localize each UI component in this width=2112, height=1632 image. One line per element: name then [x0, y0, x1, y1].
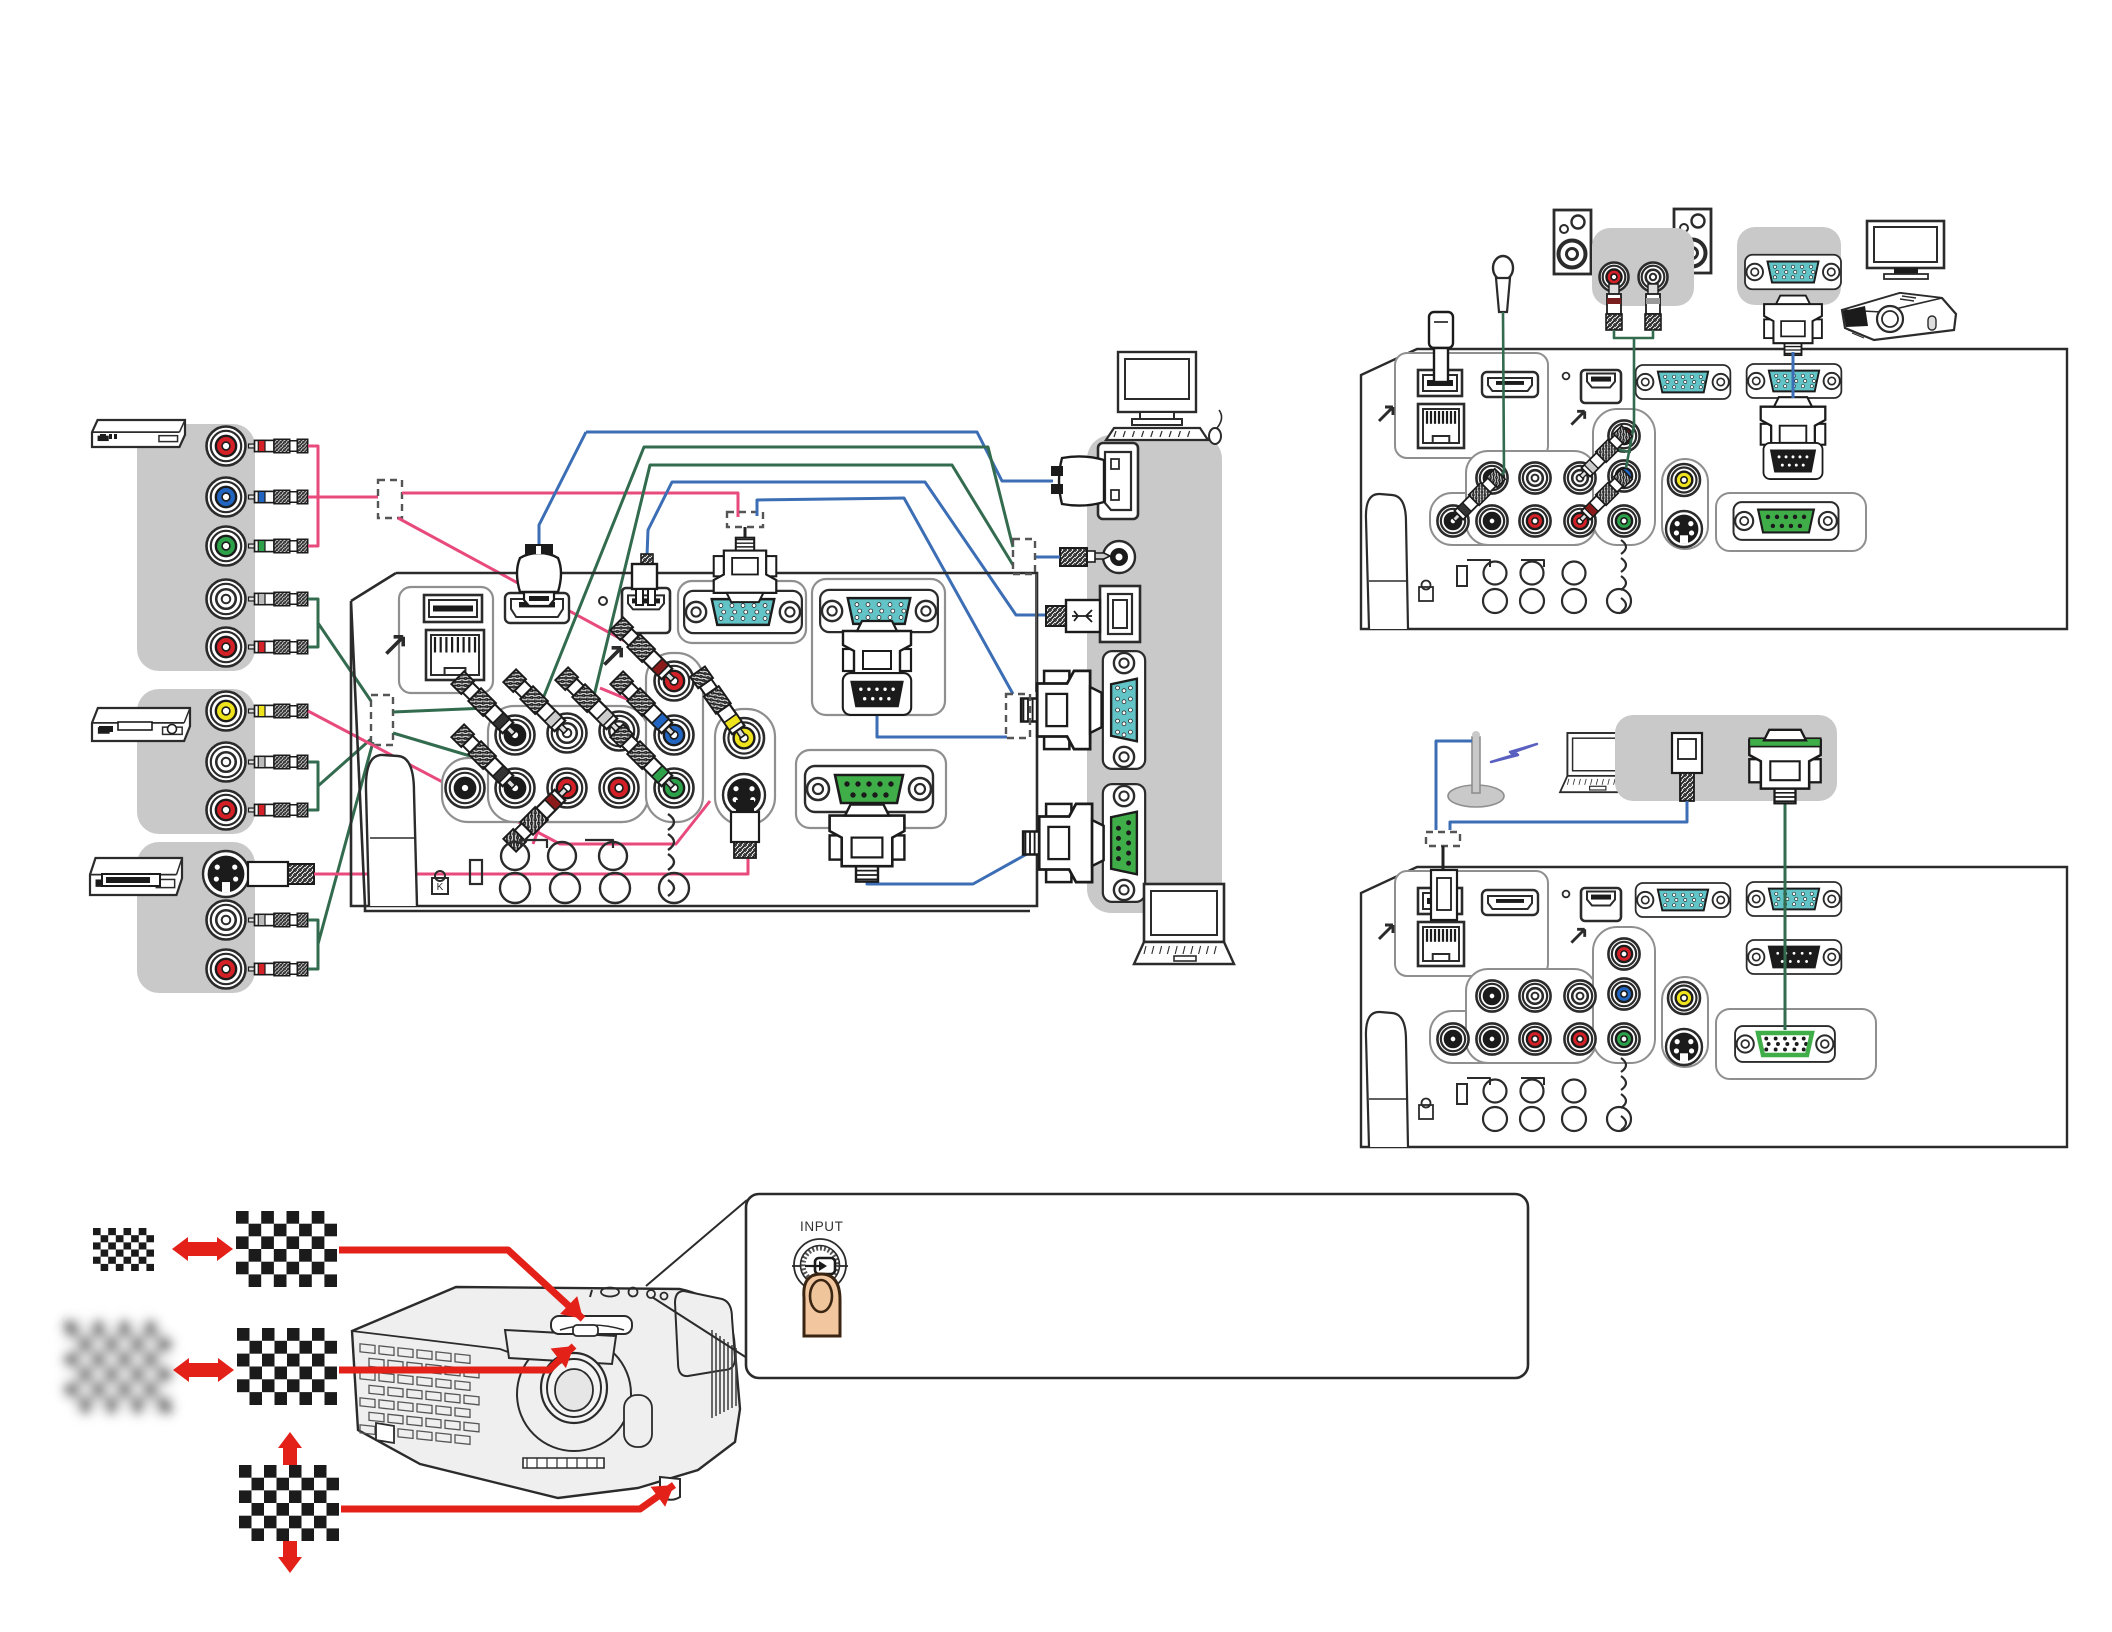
VGA in1 [1636, 883, 1731, 917]
grille brick pattern [360, 1344, 375, 1354]
cluster jacks [496, 716, 535, 755]
audio plug [1094, 553, 1110, 559]
top front edge [352, 1331, 508, 1352]
red line to foot [341, 1485, 674, 1509]
panel outline [1361, 349, 2067, 629]
USB-A port [1418, 370, 1462, 396]
computer-in green VGA port (mid) [1716, 1009, 1876, 1079]
USB cable plug [1066, 600, 1100, 632]
laptop (wireless) [1560, 733, 1634, 792]
control cable head [830, 805, 905, 882]
coupler1 [378, 480, 402, 518]
mic cable [1483, 312, 1504, 498]
video deck icon [90, 858, 182, 895]
coupler5 [1006, 694, 1030, 738]
CONTROL green d-sub (top-right) [1716, 493, 1866, 551]
VGA head into strip [1021, 671, 1102, 749]
speaker plugs [1609, 284, 1619, 296]
gray box: component video source [137, 424, 255, 671]
microphone [1493, 256, 1513, 280]
VIDEO yellow jack [724, 718, 764, 758]
red line to focus ring [339, 1346, 574, 1370]
VCR icon [92, 708, 190, 741]
LAN plug into panel [1431, 870, 1457, 920]
INPUT button [794, 1239, 846, 1291]
mini USB plug [641, 554, 653, 566]
blue cables mid [1436, 741, 1472, 830]
IR window [624, 1395, 652, 1447]
checkerboard large [236, 1211, 337, 1287]
USB memory [1429, 312, 1453, 348]
blue cable vga [757, 498, 1013, 694]
video/svideo [1662, 459, 1708, 549]
checkerboard focus [237, 1328, 337, 1405]
RS232 black d-sub (mid) [1747, 940, 1842, 974]
coupler2 [727, 512, 763, 527]
lens housing block [505, 1330, 616, 1364]
kensington [432, 878, 448, 894]
HDMI port (strip) [1098, 443, 1138, 519]
elevator foot [366, 755, 417, 906]
VGA in1 [1636, 365, 1731, 399]
blue cable usb [647, 482, 1046, 615]
VGA2 head + adapter (top-right) [1761, 397, 1826, 464]
audio cluster [1430, 1011, 1596, 1063]
HDMI cable head (strip) [1059, 456, 1104, 505]
VGA port (strip, green) [1103, 784, 1145, 902]
up arrow [278, 1432, 302, 1465]
INPUT box [746, 1194, 1528, 1378]
foot [1366, 494, 1408, 629]
HDMI plug [524, 592, 554, 606]
svg-text:K: K [437, 882, 444, 893]
pink to cluster component plugs [398, 518, 645, 652]
monitor-out VGA port (floating) [1745, 255, 1841, 290]
COMPUTER IN1 port [684, 591, 802, 633]
lens bay circle [517, 1337, 631, 1451]
green audio cable box2 [308, 762, 318, 810]
VGA cable head in1 [714, 538, 777, 602]
zoom double arrow [172, 1237, 233, 1261]
svideo plug [736, 800, 754, 814]
LAN/USB block [399, 587, 493, 693]
foot [1366, 1012, 1408, 1147]
speaker gray box [1592, 228, 1694, 306]
red line to zoom lever [339, 1250, 583, 1319]
HDMI port [1482, 890, 1538, 915]
pink svideo cable [314, 856, 748, 874]
blue cable hdmi->dvi [586, 432, 1053, 481]
mini USB port [622, 588, 670, 633]
zoom lever [551, 1316, 632, 1334]
pink component cable [308, 446, 318, 546]
LAN cable plug in box [1672, 733, 1702, 773]
bottom holes [1467, 1078, 1490, 1085]
monitor-out VGA head below [1764, 296, 1822, 356]
blue cable rs232 [877, 716, 1007, 737]
speakers [1554, 210, 1591, 274]
blue cable control [867, 845, 1052, 884]
coupler6 [1426, 832, 1460, 846]
monitor gray box [1737, 227, 1841, 305]
audio minijack [1103, 541, 1135, 573]
laptop icon [1134, 884, 1234, 964]
CONTROL port green d-sub [796, 750, 946, 828]
plugs in top-right cluster [1449, 469, 1505, 525]
S-VIDEO jack [723, 774, 765, 816]
finger [804, 1274, 840, 1336]
access point antenna [1448, 785, 1504, 807]
bottom holes [1467, 560, 1490, 567]
LAN port [1418, 922, 1464, 966]
video/svideo [1662, 977, 1708, 1067]
callout lines [646, 1200, 747, 1286]
blurred checkerboard [66, 1322, 170, 1412]
LAN port [1418, 404, 1464, 448]
wireless lightning [1491, 744, 1537, 762]
green cable audio out 2 [592, 465, 1013, 704]
control buttons [590, 1290, 592, 1297]
panel outline [1361, 867, 2067, 1147]
LAN port [426, 630, 484, 680]
bottom brackets and holes [519, 840, 547, 848]
right vents [711, 1330, 713, 1418]
vga zone rects [678, 581, 806, 643]
TV icon [1867, 221, 1944, 268]
gray box: composite video source [137, 689, 255, 834]
green cable audio out 1 [540, 447, 1013, 706]
projector body [352, 1287, 740, 1498]
projector rear panel outline [351, 573, 1037, 911]
VGA head green [1023, 804, 1104, 882]
lens rings [541, 1353, 607, 1423]
projector icon [1842, 293, 1956, 340]
coupler4 [1013, 539, 1035, 574]
HDMI port [1482, 372, 1538, 397]
COMPUTER IN2 port [820, 590, 938, 632]
component jacks box1 [207, 427, 246, 466]
lamp hood [675, 1291, 735, 1376]
checkerboard shift [239, 1465, 339, 1541]
USB port right [1100, 586, 1140, 642]
focus double arrow [173, 1358, 234, 1382]
svg-text:INPUT: INPUT [800, 1219, 844, 1234]
mini USB [1581, 888, 1621, 921]
feet and bottom [376, 1423, 394, 1443]
audio cluster [1430, 493, 1596, 545]
cluster plugs [451, 671, 520, 740]
speaker audio cable [1614, 330, 1653, 338]
mini USB [1581, 370, 1621, 403]
coupler3 [371, 695, 393, 745]
svideo jack box3 [203, 851, 249, 897]
green cable to green port [1784, 790, 1787, 1030]
green audio cable box1 [308, 599, 318, 647]
HDMI port [505, 593, 569, 623]
right gray strip [1087, 435, 1222, 913]
USB-A port [424, 595, 482, 622]
green audio cable box3 [308, 920, 318, 969]
gray box: s-video source [137, 842, 255, 993]
arrow mark [386, 637, 403, 654]
USB-A port [1418, 888, 1462, 914]
AV cluster outline [442, 758, 648, 822]
VGA in2 [1747, 882, 1842, 916]
usb/lan block [1395, 353, 1548, 458]
VGA head green (downward) [1749, 730, 1820, 804]
VGA port (strip, teal) [1103, 651, 1145, 769]
VGA cable head in2 (from below) [843, 621, 911, 691]
usb/lan block [1395, 871, 1548, 976]
desktop computer icon [1106, 352, 1222, 444]
green to black jacks [393, 708, 487, 712]
down arrow [278, 1541, 302, 1573]
yellow/svideo housing [715, 709, 775, 825]
pink composite cable [308, 711, 710, 844]
composite jacks box2 [207, 692, 246, 731]
service hole [599, 597, 607, 605]
DVD player icon [92, 420, 185, 447]
VGA in2 [1747, 364, 1842, 398]
RS232 adapter black d-sub [843, 673, 911, 715]
gray box mid [1615, 715, 1837, 801]
checkerboard small [93, 1228, 154, 1271]
